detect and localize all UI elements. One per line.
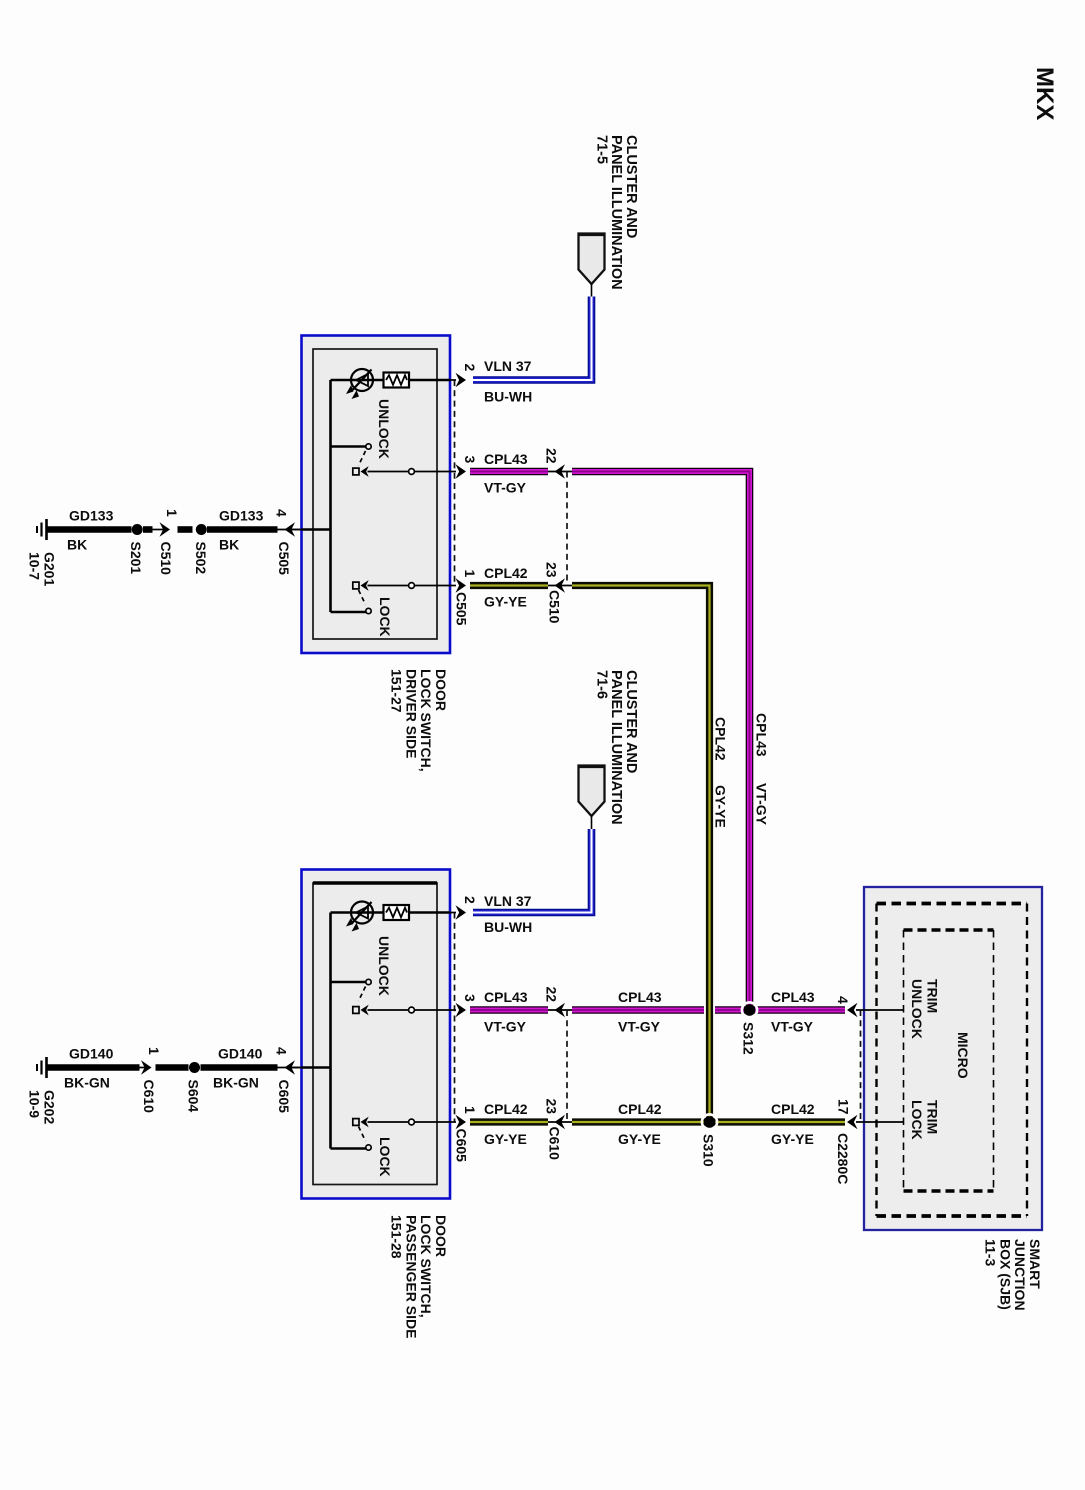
svg-text:CPL43: CPL43 bbox=[618, 989, 662, 1005]
svg-text:BK-GN: BK-GN bbox=[64, 1075, 110, 1091]
svg-text:BK: BK bbox=[219, 537, 239, 553]
svg-text:BK: BK bbox=[67, 537, 87, 553]
svg-text:VT-GY: VT-GY bbox=[754, 783, 770, 826]
svg-text:C610: C610 bbox=[547, 1127, 563, 1161]
svg-text:2: 2 bbox=[462, 364, 478, 372]
svg-text:VT-GY: VT-GY bbox=[771, 1019, 814, 1035]
svg-text:1: 1 bbox=[462, 1106, 478, 1114]
svg-text:C510: C510 bbox=[158, 542, 174, 576]
svg-text:S201: S201 bbox=[128, 542, 144, 575]
svg-text:MICRO: MICRO bbox=[955, 1032, 971, 1079]
svg-text:MKX: MKX bbox=[1031, 67, 1058, 120]
svg-text:GD133: GD133 bbox=[219, 508, 264, 524]
svg-text:GD140: GD140 bbox=[218, 1046, 263, 1062]
svg-text:22: 22 bbox=[544, 987, 560, 1003]
svg-text:GY-YE: GY-YE bbox=[484, 594, 527, 610]
svg-text:GY-YE: GY-YE bbox=[771, 1131, 814, 1147]
svg-text:C605: C605 bbox=[276, 1080, 292, 1114]
svg-text:4: 4 bbox=[835, 996, 851, 1004]
svg-text:BU-WH: BU-WH bbox=[484, 919, 532, 935]
svg-text:C2280C: C2280C bbox=[835, 1133, 851, 1184]
svg-text:S312: S312 bbox=[741, 1022, 757, 1055]
svg-text:CPL43: CPL43 bbox=[771, 989, 815, 1005]
svg-text:CPL42: CPL42 bbox=[713, 717, 729, 761]
svg-text:GD140: GD140 bbox=[69, 1046, 114, 1062]
svg-text:BU-WH: BU-WH bbox=[484, 389, 532, 405]
svg-text:UNLOCK: UNLOCK bbox=[376, 936, 392, 996]
svg-text:CPL43: CPL43 bbox=[484, 451, 528, 467]
svg-text:VLN 37: VLN 37 bbox=[484, 358, 532, 374]
svg-text:S604: S604 bbox=[186, 1080, 202, 1113]
svg-text:CPL42: CPL42 bbox=[771, 1101, 815, 1117]
svg-text:C510: C510 bbox=[547, 590, 563, 624]
svg-text:C610: C610 bbox=[141, 1080, 157, 1114]
svg-text:LOCK: LOCK bbox=[377, 597, 393, 637]
svg-text:CPL42: CPL42 bbox=[484, 1101, 528, 1117]
svg-text:17: 17 bbox=[836, 1099, 852, 1115]
svg-text:1: 1 bbox=[146, 1047, 162, 1055]
svg-text:CPL42: CPL42 bbox=[484, 565, 528, 581]
svg-text:BK-GN: BK-GN bbox=[213, 1075, 259, 1091]
svg-text:GY-YE: GY-YE bbox=[618, 1131, 661, 1147]
svg-text:TRIMLOCK: TRIMLOCK bbox=[909, 1100, 941, 1140]
svg-text:1: 1 bbox=[462, 570, 478, 578]
svg-text:GY-YE: GY-YE bbox=[713, 785, 729, 828]
svg-text:S502: S502 bbox=[193, 542, 209, 575]
svg-text:CPL42: CPL42 bbox=[618, 1101, 662, 1117]
svg-text:4: 4 bbox=[274, 509, 290, 517]
svg-text:23: 23 bbox=[544, 562, 560, 578]
svg-text:VT-GY: VT-GY bbox=[618, 1019, 661, 1035]
svg-text:4: 4 bbox=[274, 1047, 290, 1055]
svg-text:C505: C505 bbox=[454, 592, 470, 626]
svg-text:1: 1 bbox=[164, 509, 180, 517]
svg-text:22: 22 bbox=[544, 448, 560, 464]
svg-text:2: 2 bbox=[462, 896, 478, 904]
svg-text:UNLOCK: UNLOCK bbox=[376, 399, 392, 459]
svg-text:CPL43: CPL43 bbox=[754, 713, 770, 757]
svg-text:C605: C605 bbox=[454, 1129, 470, 1163]
svg-text:S310: S310 bbox=[701, 1134, 717, 1167]
svg-text:VT-GY: VT-GY bbox=[484, 480, 527, 496]
svg-text:CPL43: CPL43 bbox=[484, 989, 528, 1005]
svg-text:GD133: GD133 bbox=[69, 508, 114, 524]
svg-text:VLN 37: VLN 37 bbox=[484, 893, 532, 909]
svg-text:GY-YE: GY-YE bbox=[484, 1131, 527, 1147]
svg-text:LOCK: LOCK bbox=[377, 1137, 393, 1177]
svg-text:VT-GY: VT-GY bbox=[484, 1019, 527, 1035]
svg-text:3: 3 bbox=[462, 456, 478, 464]
svg-text:3: 3 bbox=[462, 994, 478, 1002]
svg-text:C505: C505 bbox=[276, 542, 292, 576]
svg-text:23: 23 bbox=[544, 1099, 560, 1115]
